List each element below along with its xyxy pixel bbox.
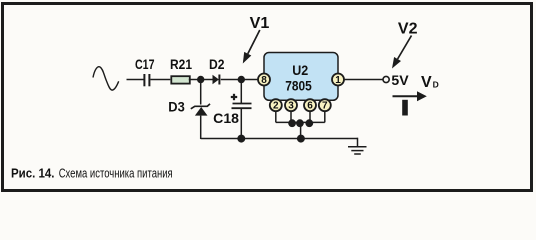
wire: node B down to C18 — [240, 80, 242, 104]
output terminal (open circle) — [383, 76, 389, 82]
junction dot bus left — [288, 119, 296, 127]
junction dot bus mid — [296, 119, 304, 127]
caption — [11, 165, 173, 180]
wire: node A to D2 — [201, 79, 213, 81]
svg-text:6: 6 — [307, 101, 313, 112]
svg-text:1: 1 — [335, 75, 341, 86]
svg-text:7805: 7805 — [285, 77, 312, 93]
wire: ground bus under U2 — [276, 121, 325, 123]
svg-text:Схема источника питания: Схема источника питания — [59, 166, 173, 180]
wire: node A down to D3 — [200, 80, 202, 105]
pin 8 — [258, 74, 270, 87]
svg-text:5V: 5V — [391, 72, 409, 88]
current label I — [402, 100, 408, 116]
wire: pin 2 drop — [275, 111, 277, 123]
svg-text:V1: V1 — [250, 15, 270, 32]
node V1 label and arrow — [243, 15, 270, 63]
diode D3 (zener) — [168, 98, 210, 115]
pin 6 — [304, 99, 316, 112]
svg-text:C17: C17 — [135, 56, 155, 72]
wire: pin 6 drop — [309, 111, 311, 123]
wire: bus to ground rail — [300, 123, 302, 138]
svg-text:D: D — [433, 79, 439, 89]
wire: R21 to node A — [189, 79, 198, 81]
node A (junction R21/D2/D3) — [197, 76, 204, 83]
junction dot rail at bus drop — [297, 135, 305, 143]
wire: source to C17 — [127, 79, 144, 81]
node B (junction D2/C18/U2 pin8) — [238, 76, 245, 83]
wire: pin 7 drop — [324, 111, 326, 123]
capacitor C17 — [135, 56, 155, 86]
resistor R21 — [170, 56, 192, 84]
svg-text:7: 7 — [322, 101, 328, 112]
node V2 label and arrow — [392, 21, 418, 69]
svg-text:V: V — [421, 74, 432, 91]
ground — [348, 138, 367, 154]
wire: bottom ground rail — [201, 138, 358, 140]
diode D2 — [209, 56, 225, 85]
label VD — [421, 74, 439, 91]
pin 2 — [270, 99, 282, 112]
wire: pin 3 drop — [290, 111, 292, 123]
svg-text:2: 2 — [273, 101, 279, 112]
svg-text:D3: D3 — [168, 98, 185, 114]
pin 7 — [319, 99, 331, 112]
wire: C18 to rail — [240, 109, 242, 139]
svg-text:Рис. 14.: Рис. 14. — [11, 165, 55, 180]
junction dot rail at C18 — [237, 135, 245, 143]
wire: D3 to rail — [200, 116, 202, 139]
wire: C17 to R21 — [150, 79, 170, 81]
wire: D2 to node B — [221, 79, 241, 81]
border frame (decorative) — [3, 4, 532, 191]
wire: node B to U2 pin 8 — [241, 79, 258, 81]
AC source sine symbol — [93, 67, 119, 90]
current direction arrow — [393, 91, 427, 101]
svg-text:3: 3 — [288, 101, 294, 112]
svg-text:8: 8 — [261, 75, 267, 86]
junction dot bus right — [305, 119, 313, 127]
pin 3 — [285, 99, 297, 112]
svg-text:R21: R21 — [170, 56, 192, 72]
svg-text:U2: U2 — [292, 63, 308, 78]
pin 1 — [332, 74, 344, 87]
wire: pin 1 to output terminal — [344, 79, 383, 81]
svg-text:D2: D2 — [209, 56, 225, 72]
op-amp / regulator U2 7805 body — [264, 53, 338, 101]
svg-text:C18: C18 — [213, 110, 239, 126]
svg-text:V2: V2 — [398, 21, 418, 38]
capacitor C18 (polarized) — [213, 94, 251, 126]
